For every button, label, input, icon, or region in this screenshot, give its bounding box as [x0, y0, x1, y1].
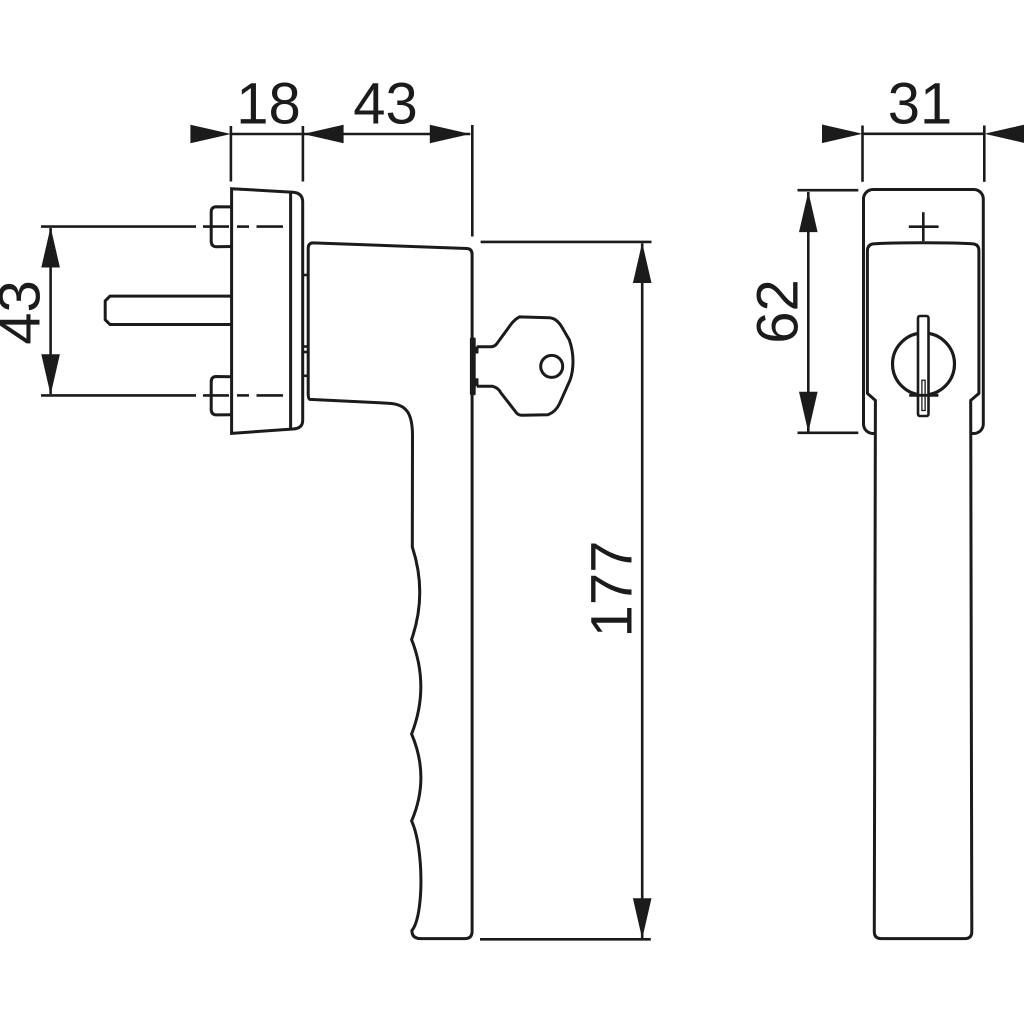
dim 177: dimension line: [641, 244, 644, 939]
dim 18+43 top: dimension line: [231, 133, 470, 136]
dim 18: extension line right: [302, 126, 305, 182]
dim 62: top arrow: [799, 192, 818, 233]
dim 18: extension line left: [230, 126, 233, 182]
dim 43 top: extension line right: [471, 125, 474, 237]
svg-text:31: 31: [888, 72, 953, 137]
dim 177: extension line top: [481, 241, 652, 244]
svg-text:43: 43: [353, 72, 418, 137]
dim 43 top: left arrow: [303, 125, 344, 144]
dim 177: top arrow: [633, 243, 652, 284]
side view: rosette profile tick D: [303, 374, 309, 377]
side view: square spindle: [105, 296, 231, 324]
side view: rosette plate inner edge: [289, 192, 292, 429]
front view: lock cylinder circle: [893, 333, 955, 395]
dim 62: extension line top: [798, 189, 859, 192]
front view: key blade inner edge: [922, 380, 925, 410]
side view: screw centerline top: [41, 225, 283, 228]
svg-text:62: 62: [745, 279, 810, 344]
dim 31: dimension line: [863, 133, 985, 136]
side view: screw centerline bottom: [41, 394, 283, 397]
dim 177: extension line bottom: [480, 938, 651, 941]
side view: rosette profile tick B: [303, 345, 309, 348]
front view: key bit crossbar: [909, 394, 938, 397]
svg-text:177: 177: [579, 541, 644, 638]
dim 43 left: top arrow: [41, 227, 60, 268]
side view: rosette profile tick A: [303, 274, 309, 277]
front view: handle: [867, 243, 979, 939]
front view: plus mark horizontal: [909, 225, 939, 228]
dim 31: extension line left: [861, 126, 864, 182]
dim 62: dimension line: [807, 192, 810, 432]
dim 31: right arrow: [984, 125, 1024, 144]
dim 18: left arrow: [190, 125, 231, 144]
dim 62: bottom arrow: [799, 392, 818, 433]
side view: bottom screw: [211, 377, 231, 415]
side view: rosette plate: [232, 189, 303, 434]
front view: key edge: [918, 316, 929, 416]
dim 43 top: right arrow: [430, 125, 471, 144]
front view: rosette plate: [864, 190, 984, 434]
side view: top screw: [211, 207, 231, 247]
side view: handle neck and grip with finger grooves: [308, 243, 472, 939]
arrows: [41, 125, 1024, 939]
dim 43 left: bottom arrow: [41, 354, 60, 395]
svg-text:18: 18: [236, 72, 301, 137]
dim 31: left arrow: [822, 125, 863, 144]
side view: key: [477, 317, 573, 415]
side view: keyhole plug: [470, 338, 479, 396]
dim 31: extension line right: [983, 126, 986, 182]
dim 62: extension line bottom: [798, 431, 859, 434]
front view: plus mark vertical: [922, 212, 925, 241]
side view: rosette profile tick C: [303, 351, 309, 354]
dim 43 left vertical: dimension line: [49, 228, 52, 394]
dimension lines group: [51, 125, 985, 939]
dim 177: bottom arrow: [633, 898, 652, 939]
svg-text:43: 43: [0, 280, 52, 345]
side view: key hole: [541, 355, 563, 377]
